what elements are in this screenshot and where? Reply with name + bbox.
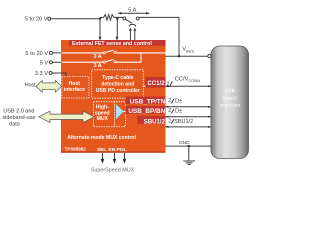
svg-text:Alternate-mode MUX control: Alternate-mode MUX control — [67, 135, 136, 141]
svg-text:Host: Host — [25, 82, 36, 88]
svg-text:VBUS: VBUS — [182, 47, 194, 54]
svg-text:USB_BP/BN: USB_BP/BN — [128, 108, 165, 115]
svg-text:SBU1/2: SBU1/2 — [144, 118, 166, 125]
svg-text:2: 2 — [168, 118, 171, 124]
svg-text:2: 2 — [167, 82, 170, 88]
svg-text:Type-C: Type-C — [222, 95, 238, 100]
svg-text:SBU1/2: SBU1/2 — [174, 119, 193, 125]
svg-text:CC/VCONN: CC/VCONN — [175, 77, 201, 83]
svg-text:TPS65982: TPS65982 — [65, 147, 87, 152]
svg-text:EN: EN — [108, 147, 115, 153]
svg-text:SuperSpeed MUX: SuperSpeed MUX — [91, 168, 135, 174]
svg-text:Type-C cable: Type-C cable — [102, 75, 133, 81]
svg-text:5 to 20 V: 5 to 20 V — [25, 51, 48, 57]
svg-text:interface: interface — [64, 87, 85, 93]
svg-text:data: data — [9, 121, 21, 127]
svg-text:D±: D± — [175, 108, 182, 114]
svg-text:3 A: 3 A — [93, 54, 101, 60]
svg-text:3.3 V: 3.3 V — [35, 71, 48, 77]
svg-text:5 V: 5 V — [40, 60, 49, 66]
svg-text:D±: D± — [175, 98, 182, 104]
svg-text:USB 2.0 and: USB 2.0 and — [3, 109, 34, 115]
svg-text:External FET sense and control: External FET sense and control — [72, 41, 152, 47]
svg-text:5 to 20 V: 5 to 20 V — [25, 17, 48, 23]
svg-text:USB: USB — [225, 88, 235, 93]
svg-text:3 A: 3 A — [93, 63, 101, 69]
svg-text:2: 2 — [168, 108, 171, 114]
svg-text:connector: connector — [220, 103, 241, 108]
svg-text:2: 2 — [168, 98, 171, 104]
svg-text:sideband-use: sideband-use — [2, 115, 35, 121]
svg-text:CC1/2: CC1/2 — [147, 80, 165, 87]
svg-text:5 A: 5 A — [128, 7, 136, 13]
svg-text:MUX: MUX — [97, 116, 109, 122]
svg-text:detection and: detection and — [101, 81, 134, 87]
svg-text:USB_TP/TN: USB_TP/TN — [130, 98, 166, 105]
svg-text:SEL: SEL — [97, 147, 107, 153]
svg-text:GND: GND — [179, 140, 190, 146]
svg-text:POL: POL — [116, 147, 126, 153]
svg-text:USB PD controller: USB PD controller — [96, 88, 140, 94]
